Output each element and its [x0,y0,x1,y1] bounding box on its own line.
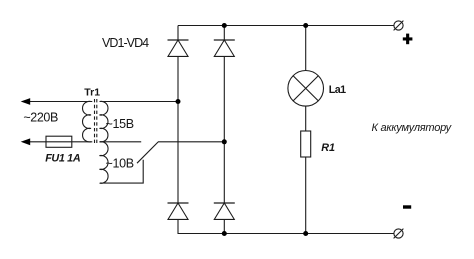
wire left bridge branch (middle segment) [177,56,179,203]
diode VD4 (bottom right, of VD1-VD4) [214,203,235,219]
node junction dot top rail / lamp branch [303,23,308,28]
wire right bridge branch (lower segment) [223,219,225,233]
wire primary bottom lead (through fuse) [30,141,93,143]
wire AC input 2: switch to right bridge midpoint [158,141,224,143]
svg-text:~10В: ~10В [106,156,134,170]
wire lamp branch (top segment) [305,26,307,71]
wire left bridge branch (lower segment) [177,219,179,233]
node junction dot bottom rail / lamp branch [303,231,308,236]
diode VD3 (bottom left, of VD1-VD4) [168,203,189,219]
svg-text:FU1 1A: FU1 1A [45,152,81,164]
minus sign [403,205,411,208]
terminal - output (circle with slash) [394,229,404,239]
lamp La1 [288,71,324,107]
wire ~10B winding end loop with vertical stub [100,160,143,183]
node junction dot bottom rail / right branch [222,231,227,236]
svg-text:La1: La1 [329,84,346,96]
node junction dot top rail / right branch [222,23,227,28]
terminal + output (circle with slash) [394,21,404,31]
transformer Tr1 secondary winding ~15B section [100,101,108,142]
diode VD1 (top left, of VD1-VD4) [168,40,189,56]
node junction dot AC1 / left branch [176,99,181,104]
node junction dot AC2 / right branch [222,139,227,144]
wire resistor to bottom rail [305,157,307,234]
svg-text:R1: R1 [321,142,335,154]
wire middle tap (fixed contact of selector) [100,141,141,143]
arrow mains lead bottom [21,138,31,145]
transformer Tr1 primary winding [83,101,91,142]
fuse FU1 [46,136,72,147]
wire right bridge branch (middle segment) [223,56,225,203]
svg-text:VD1-VD4: VD1-VD4 [102,36,149,50]
wire AC input 1: secondary top to left bridge midpoint [100,101,178,103]
plus sign [406,34,409,45]
transformer Tr1 core (dashed lines) [94,99,96,144]
wire lamp to resistor [305,106,307,131]
svg-text:~220В: ~220В [23,111,58,125]
diode VD2 (top right, of VD1-VD4) [214,40,235,56]
wire left bridge branch (upper segment) [177,26,179,41]
transformer Tr1 secondary winding ~10B section [100,142,109,184]
arrow mains lead top [21,98,31,105]
svg-text:Tr1: Tr1 [84,86,100,98]
wire right bridge branch (upper segment) [223,26,225,41]
wire bottom negative rail [178,233,395,235]
wire top positive rail [178,25,394,27]
switch blade (voltage selector) [137,142,158,163]
svg-text:К аккумулятору: К аккумулятору [372,122,453,134]
wire primary top lead [30,101,93,103]
resistor R1 [301,131,311,157]
svg-text:~15В: ~15В [106,117,134,131]
